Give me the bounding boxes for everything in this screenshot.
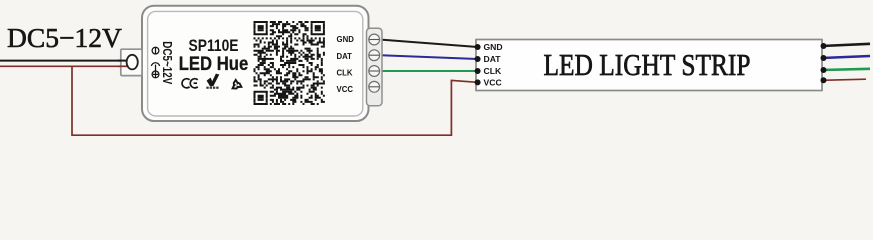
wire red DC negative input (0, 65, 129, 67)
strip right pad VCC (821, 77, 827, 83)
LED strip body (476, 40, 822, 91)
wire black GND controller to strip (379, 40, 478, 48)
terminal screw 1 GND (369, 34, 380, 45)
strip right output wire red (822, 79, 866, 80)
svg-text:GND: GND (484, 42, 503, 52)
svg-text:DAT: DAT (337, 52, 353, 61)
recycle symbol (230, 80, 242, 91)
controller case inner edge (148, 11, 363, 116)
strip right pad GND (821, 43, 827, 49)
wire red feed: branch from DC input, down, along bottom, up to strip VCC (72, 66, 478, 136)
strip right output wire blue (822, 56, 870, 58)
strip left pad DAT (475, 56, 481, 62)
svg-text:GND: GND (337, 35, 355, 44)
terminal screw 2 DAT (369, 50, 380, 61)
strip left pad GND (475, 44, 481, 50)
CE mark (182, 79, 198, 88)
svg-text:VCC: VCC (484, 77, 502, 87)
certification checkmark logo (207, 74, 220, 87)
strip right output wire green (822, 69, 870, 70)
terminal screw 3 CLK (369, 66, 380, 77)
wire red tip into plug (118, 65, 129, 67)
plug opening (127, 55, 138, 70)
QR code (253, 21, 324, 105)
strip left pad VCC (475, 79, 481, 85)
svg-text:CLK: CLK (484, 66, 502, 76)
DC barrel plug (121, 49, 142, 75)
svg-text:CLK: CLK (337, 69, 353, 78)
svg-text:LED Hue: LED Hue (179, 53, 249, 75)
strip left pad CLK (475, 68, 481, 74)
wire green CLK controller to strip (379, 70, 478, 72)
wire black tip into plug (118, 60, 128, 62)
terminal screw 4 VCC (369, 81, 380, 92)
terminal block (367, 28, 383, 106)
strip right output wire black (822, 44, 870, 46)
strip right pad DAT (821, 55, 827, 61)
svg-text:DAT: DAT (484, 54, 502, 64)
svg-text:LED LIGHT STRIP: LED LIGHT STRIP (544, 48, 751, 82)
tiny KEMA text under check (206, 87, 218, 89)
strip right pad CLK (821, 67, 827, 73)
wire black DC positive input (0, 60, 128, 62)
wire blue DAT controller to strip (379, 55, 478, 59)
controller case outer shell (142, 6, 369, 121)
svg-text:DC5−12V: DC5−12V (7, 22, 122, 53)
svg-text:VCC: VCC (337, 85, 354, 94)
svg-text:DC5~12V: DC5~12V (160, 41, 175, 84)
polarity symbol center-positive (151, 47, 159, 78)
